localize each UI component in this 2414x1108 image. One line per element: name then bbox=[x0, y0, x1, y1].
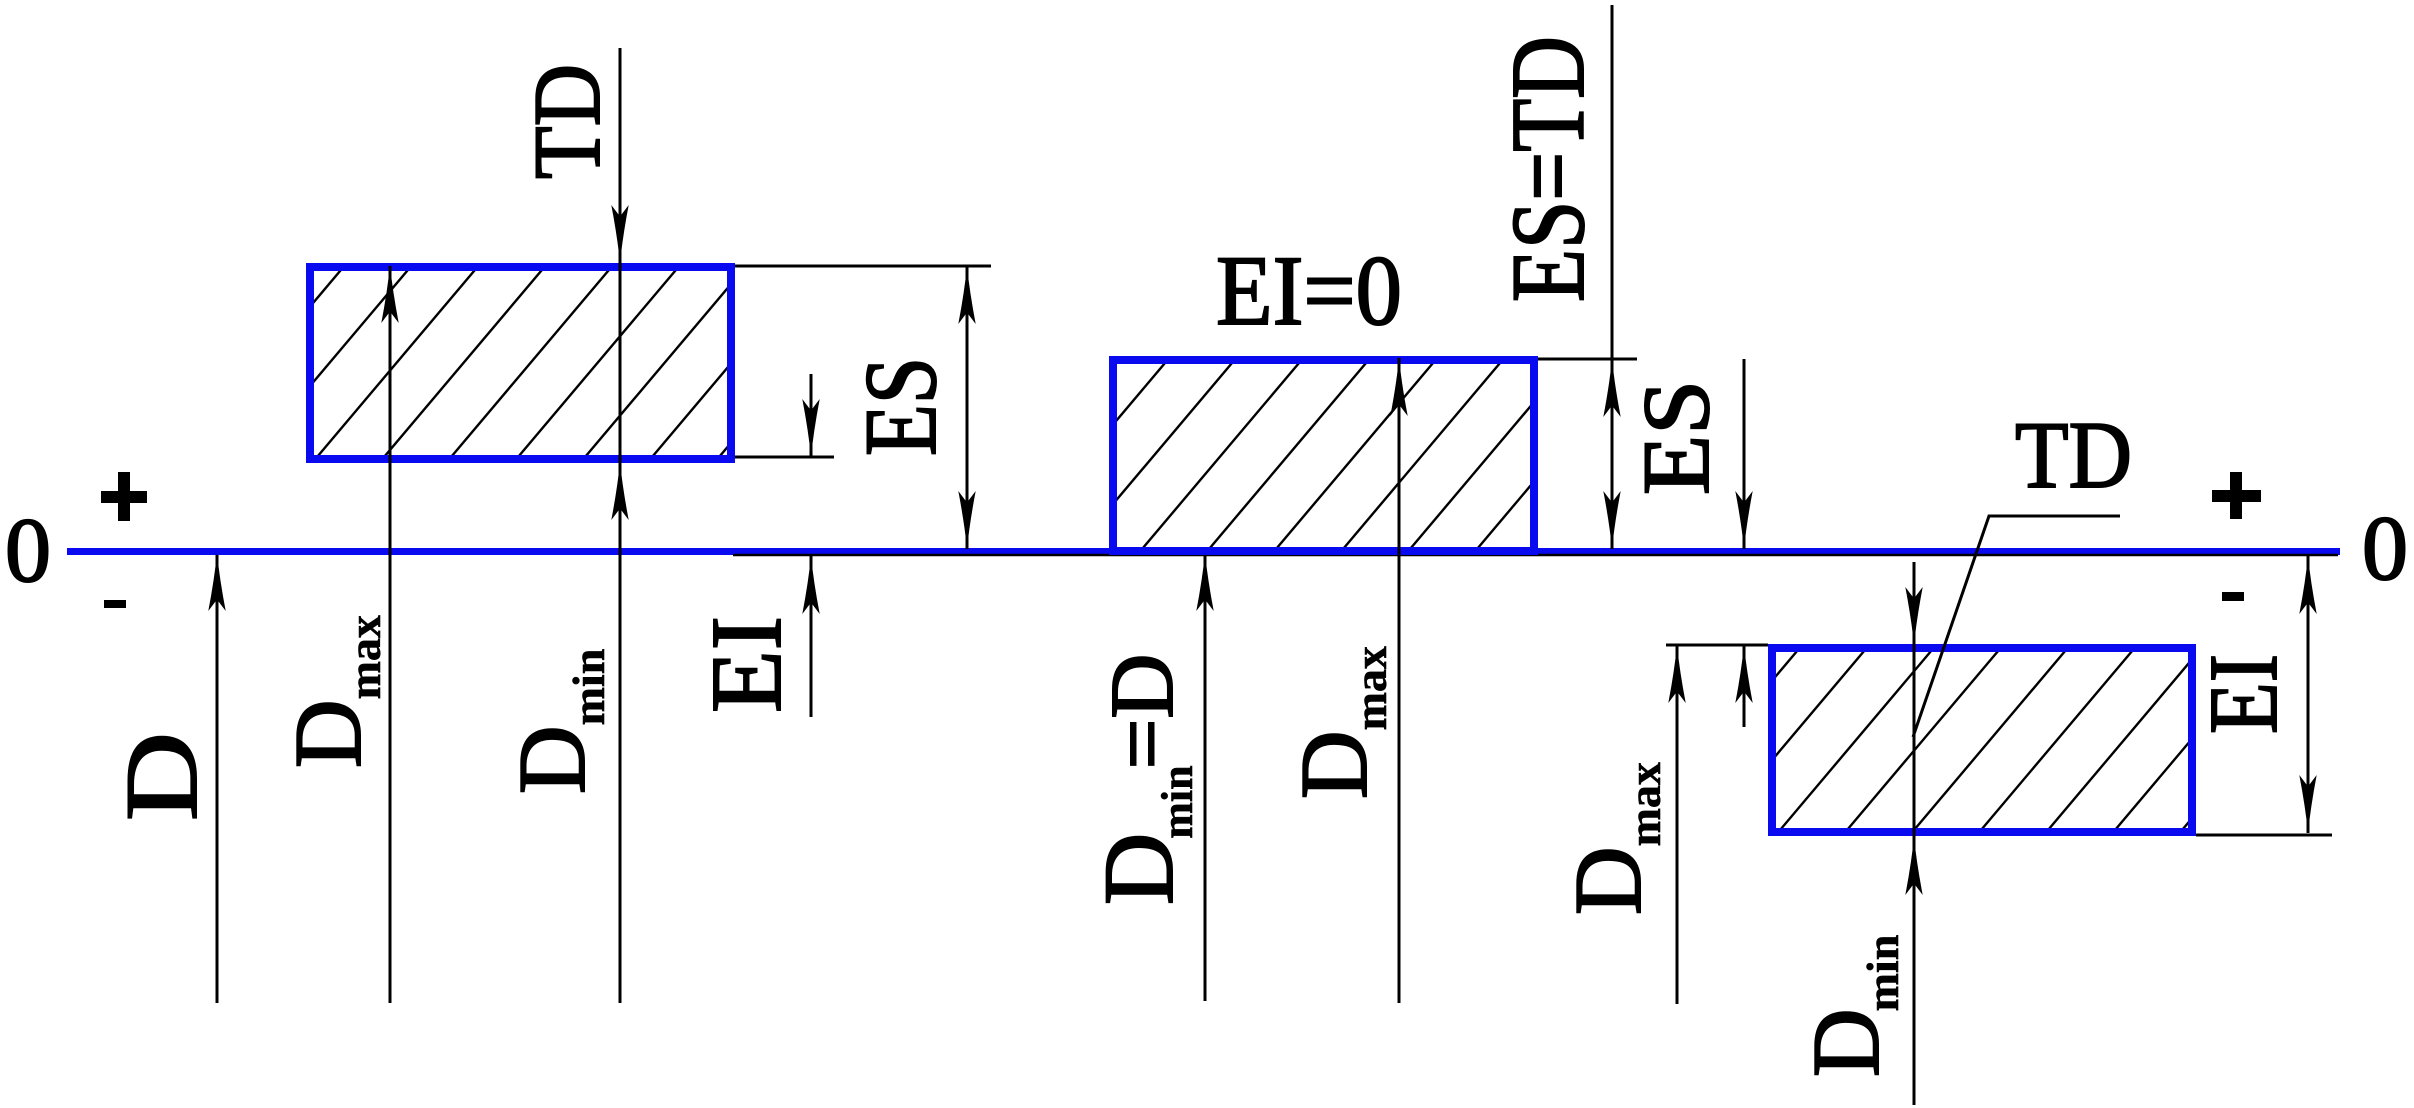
arrowhead TD right down bbox=[1905, 587, 1922, 645]
arrowhead ES=TD top up bbox=[1603, 359, 1620, 417]
arrowhead Dmax right up bbox=[1668, 645, 1685, 703]
wire: dimension line Dmax left bbox=[389, 266, 392, 1003]
wire: dimension line D bbox=[216, 555, 219, 1003]
wire: dimension line ES right lower bbox=[1743, 645, 1746, 727]
plus sign right bbox=[2212, 472, 2261, 519]
wire: dimension line ES right upper bbox=[1743, 359, 1746, 549]
minus sign left bbox=[104, 600, 126, 608]
wire: extension line top of zone3 bbox=[1666, 644, 1768, 647]
arrowhead TD/Dmin left up bbox=[611, 462, 628, 520]
wire: dimension line EI left upper bbox=[810, 374, 813, 457]
tolerance zone 2 (EI=0, sits on zero line) bbox=[601, 356, 1640, 555]
svg-text:TD: TD bbox=[514, 64, 620, 179]
arrowhead TD/Dmin right up bbox=[1905, 837, 1922, 895]
arrowhead EI left down bbox=[802, 399, 819, 457]
svg-text:D: D bbox=[105, 732, 219, 821]
arrowhead Dmin=D up bbox=[1196, 553, 1213, 611]
arrowhead EI right down bbox=[2299, 775, 2316, 833]
arrowhead TD left down bbox=[611, 205, 628, 263]
svg-text:ES: ES bbox=[1623, 380, 1729, 495]
arrowhead EI left up bbox=[802, 556, 819, 614]
wire: extension line top of zone1 bbox=[735, 265, 991, 268]
zero line bbox=[67, 548, 2340, 555]
wire: extension line top of zone2 bbox=[1538, 358, 1637, 361]
wire: dimension line Dmax right bbox=[1676, 645, 1679, 1004]
wire: extension line bottom of zone1 bbox=[735, 456, 834, 459]
tolerance zone 3 (below zero line) bbox=[1239, 644, 2339, 836]
svg-text:EI: EI bbox=[690, 616, 802, 713]
wire: extension line bottom of zone3 bbox=[2196, 834, 2332, 837]
arrowhead EI right up bbox=[2299, 556, 2316, 614]
wire: dimension line EI right bbox=[2307, 556, 2310, 833]
wire: dimension line ES left bbox=[966, 266, 969, 549]
arrowhead D up bbox=[208, 553, 225, 611]
svg-text:0: 0 bbox=[2362, 497, 2408, 599]
wire: dimension line ES=TD bbox=[1611, 5, 1614, 549]
svg-text:EI=0: EI=0 bbox=[1216, 235, 1402, 346]
arrowhead ES left top up bbox=[958, 266, 975, 324]
arrowhead Dmax middle up bbox=[1390, 358, 1407, 416]
arrowhead ES left bottom down bbox=[958, 491, 975, 549]
wire: black reference line over zero line right part bbox=[733, 554, 2338, 556]
wire: dimension line TD / Dmin left bbox=[619, 48, 622, 1003]
svg-text:ES: ES bbox=[844, 357, 958, 456]
wire: dimension line TD / Dmin right bbox=[1913, 562, 1916, 1105]
wire: dimension line Dmin=D middle bbox=[1204, 555, 1207, 1001]
arrowhead ES right up bbox=[1735, 645, 1752, 703]
arrowhead Dmax left up bbox=[381, 265, 398, 323]
minus sign right bbox=[2222, 592, 2244, 601]
plus sign left bbox=[101, 472, 147, 521]
arrowhead ES right down bbox=[1735, 491, 1752, 549]
svg-text:EI: EI bbox=[2190, 654, 2298, 734]
tolerance zone 1 (shaft above zero line) bbox=[0, 263, 883, 463]
wire: leader line of TD right bbox=[1913, 516, 2120, 737]
svg-text:0: 0 bbox=[5, 499, 51, 601]
svg-text:ES=TD: ES=TD bbox=[1489, 36, 1606, 302]
wire: dimension line Dmax middle bbox=[1398, 358, 1401, 1003]
svg-text:TD: TD bbox=[2015, 402, 2132, 508]
arrowhead ES=TD bottom down bbox=[1603, 491, 1620, 549]
wire: dimension line EI left lower bbox=[810, 556, 813, 717]
